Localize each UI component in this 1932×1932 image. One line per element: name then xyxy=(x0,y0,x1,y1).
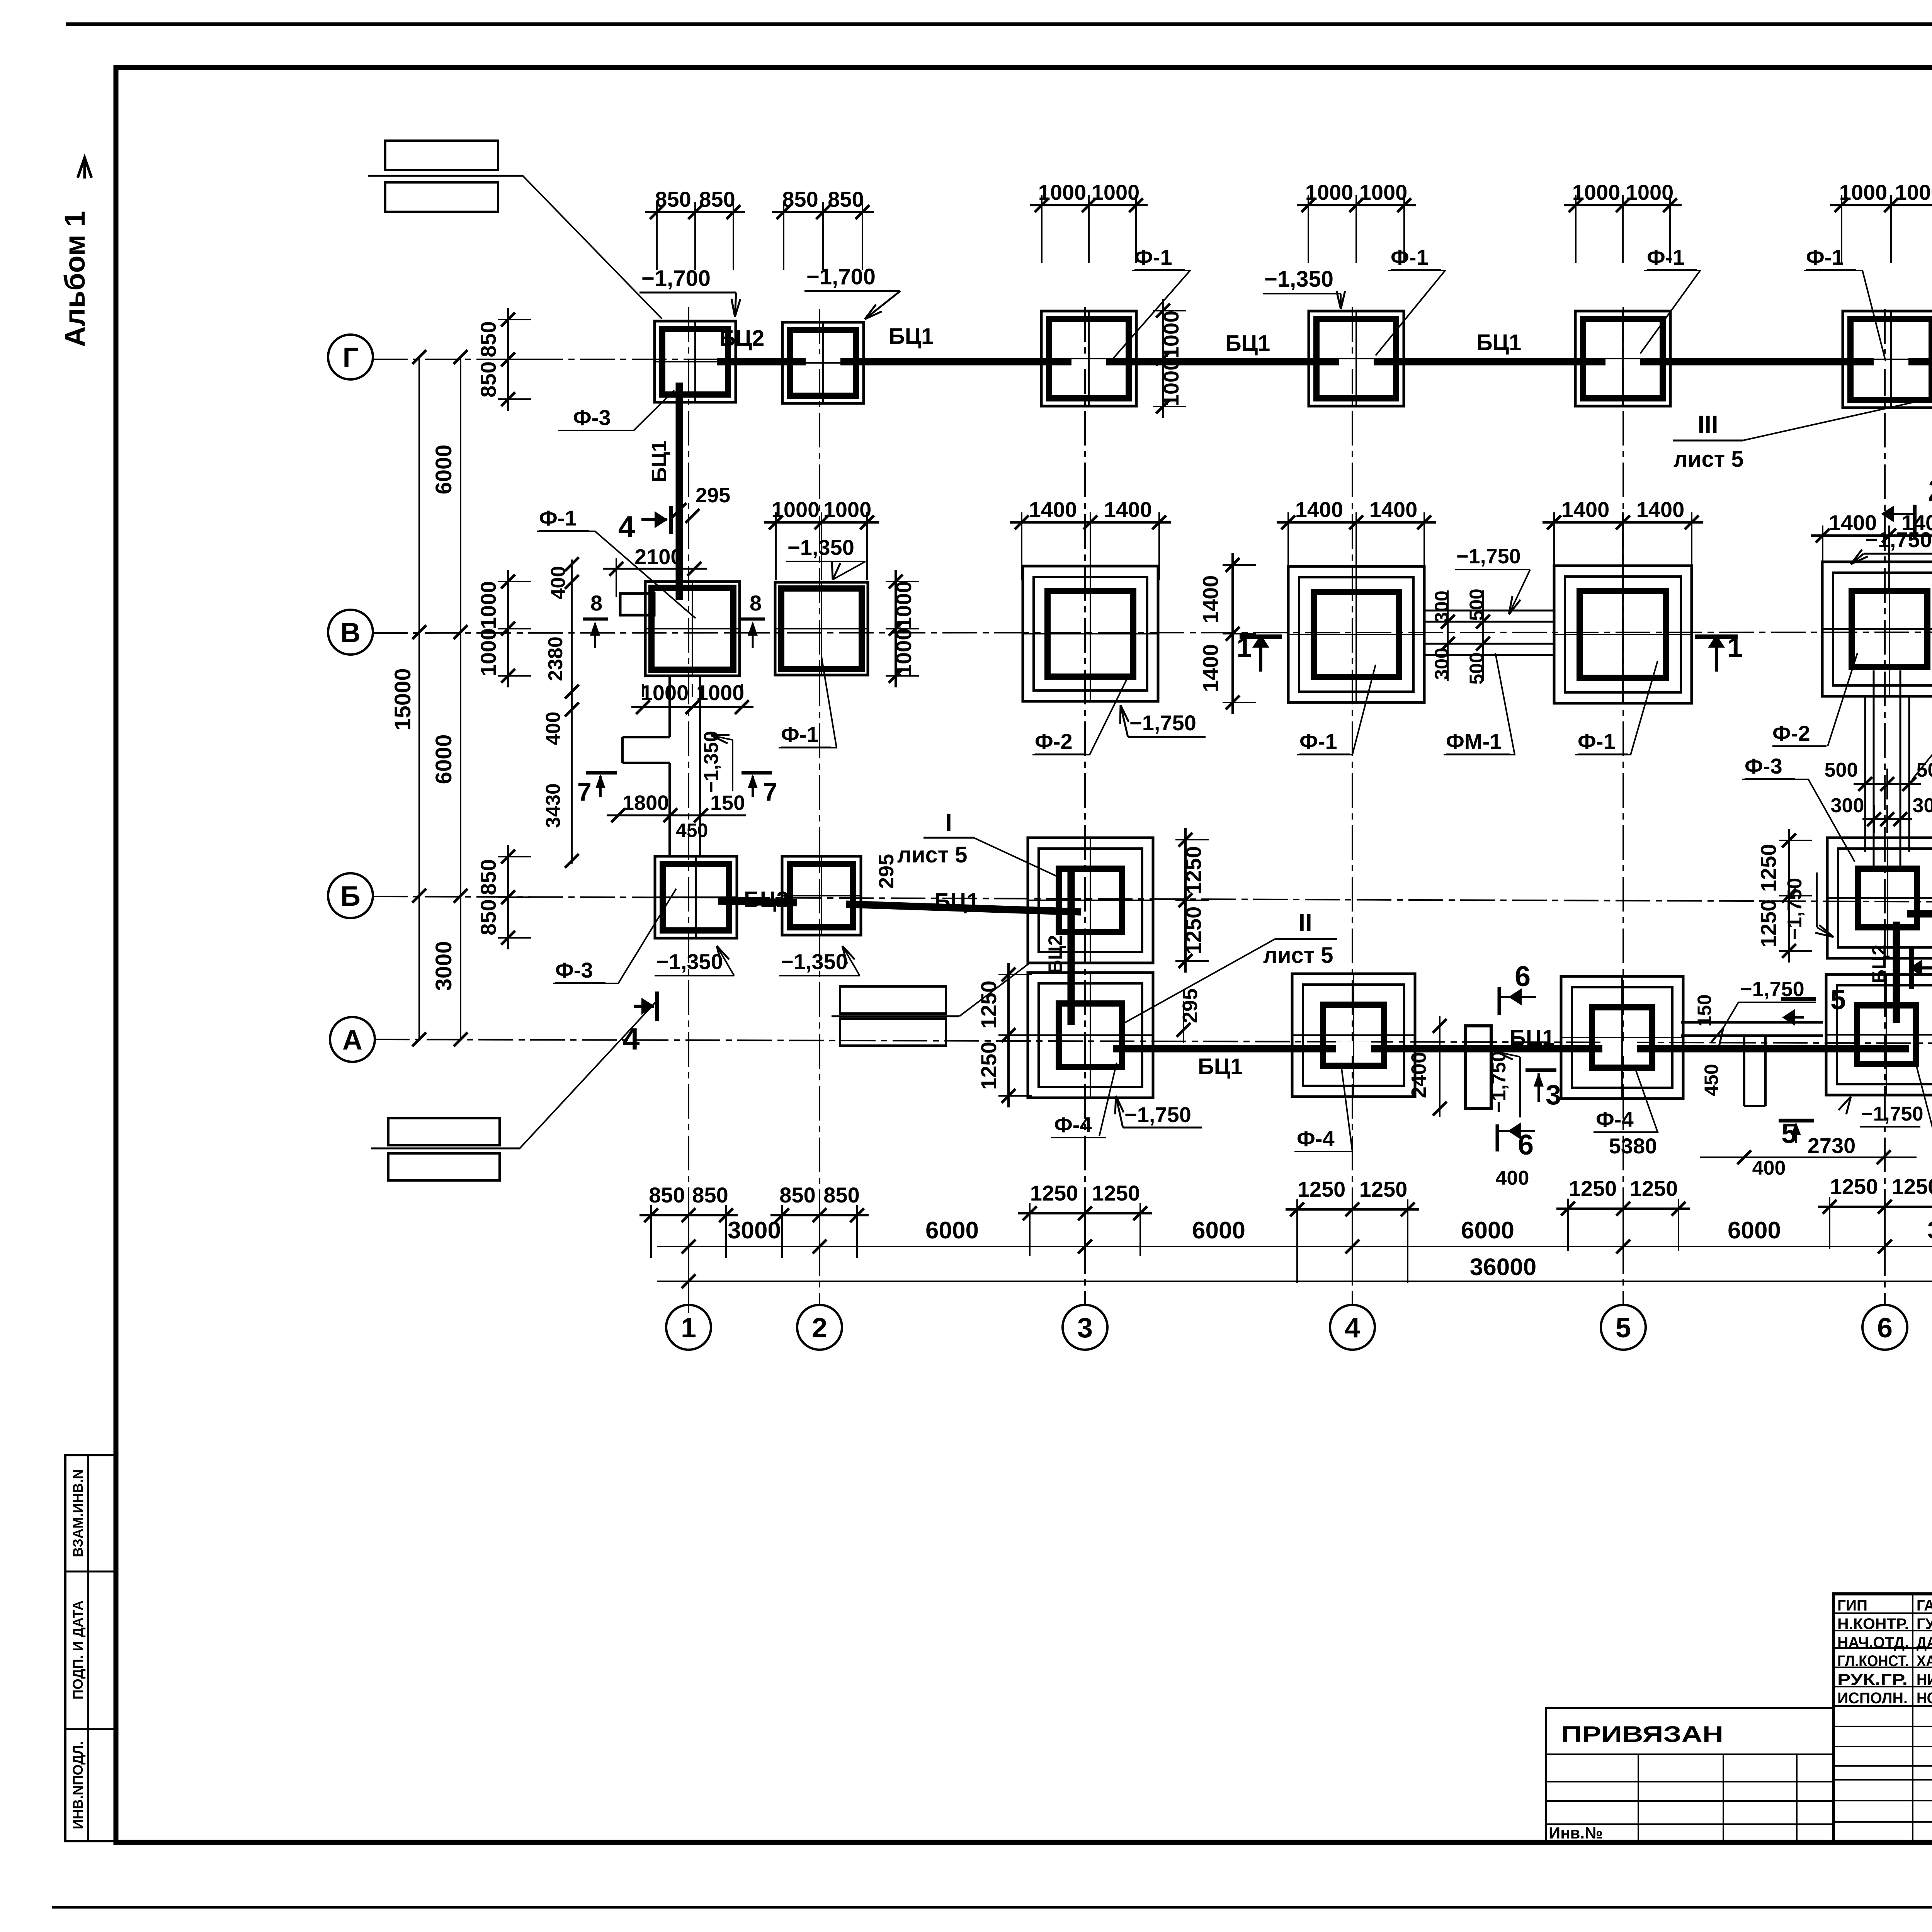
label БЦ1 Г4-5 xyxy=(1476,330,1521,355)
svg-text:лист 5: лист 5 xyxy=(897,842,968,867)
svg-text:300: 300 xyxy=(1431,648,1452,680)
ref I лист5 xyxy=(897,808,1059,877)
svg-text:1000: 1000 xyxy=(1895,180,1932,204)
svg-text:ГУЗЕНКО: ГУЗЕНКО xyxy=(1917,1616,1932,1633)
svg-text:400: 400 xyxy=(542,712,565,745)
svg-text:БЦ1: БЦ1 xyxy=(1510,1026,1554,1051)
svg-text:1000: 1000 xyxy=(1839,180,1888,204)
svg-text:1400: 1400 xyxy=(1029,497,1077,522)
svg-text:Ф-3: Ф-3 xyxy=(1745,754,1782,778)
label БЦ2 col3 vert xyxy=(1044,935,1066,974)
foundation Ф-2 В/3 xyxy=(1023,566,1158,701)
label ФМ-1 xyxy=(1444,653,1515,755)
svg-text:2400: 2400 xyxy=(1407,1052,1430,1098)
svg-text:6000: 6000 xyxy=(1728,1217,1781,1244)
dim 3430 В/1 xyxy=(542,783,565,828)
wall В/1-Б/1 xyxy=(622,676,700,855)
svg-text:3: 3 xyxy=(1077,1313,1093,1344)
sheet top rule xyxy=(66,22,1932,26)
svg-text:2730: 2730 xyxy=(1808,1133,1856,1158)
svg-text:295: 295 xyxy=(696,484,730,507)
svg-text:1000: 1000 xyxy=(1305,180,1354,204)
dim 300 ФМ-1 up xyxy=(1431,590,1452,622)
dim 2380 В/1 xyxy=(544,636,567,681)
axis line 1 xyxy=(688,307,689,1305)
dim 1000+1000 right of В/2 xyxy=(886,570,919,687)
svg-text:Ф-4: Ф-4 xyxy=(1297,1126,1335,1151)
svg-text:ИНВ.NПОДЛ.: ИНВ.NПОДЛ. xyxy=(70,1741,86,1829)
axis circle 6 xyxy=(1862,1305,1907,1350)
section 6 lower xyxy=(1497,1122,1535,1161)
label БЦ2 Б1-2 xyxy=(744,887,789,912)
section 5 upper xyxy=(1781,985,1846,1026)
dim 150 wall xyxy=(1694,994,1715,1026)
svg-text:1: 1 xyxy=(681,1313,696,1344)
elev -1,350 Г/4 xyxy=(1263,267,1345,309)
svg-text:Н.КОНТР.: Н.КОНТР. xyxy=(1837,1616,1909,1633)
svg-text:−1,750: −1,750 xyxy=(1456,545,1521,568)
label БЦ1 Г3-4 xyxy=(1225,331,1270,356)
elev -1,350 В/2 xyxy=(786,535,866,580)
svg-text:Ф-1: Ф-1 xyxy=(1578,729,1616,753)
dim 2100 В/1 xyxy=(603,544,707,597)
opening symbol top-left xyxy=(368,141,662,319)
dim 500 ФМ-1 up xyxy=(1466,588,1487,621)
dim 500 ФМ-1 dn xyxy=(1466,652,1487,684)
svg-text:Ф-1: Ф-1 xyxy=(781,722,819,747)
svg-text:1400: 1400 xyxy=(1561,497,1610,522)
dim 1250+1250 col3 xyxy=(1018,1181,1152,1256)
svg-text:1250: 1250 xyxy=(1830,1174,1878,1199)
svg-text:1000: 1000 xyxy=(1159,359,1183,407)
beam БЦ row А xyxy=(1113,1041,1909,1056)
foundation Ф-1 Г/4 xyxy=(1309,311,1404,406)
axis line В xyxy=(373,632,1932,633)
left dimension chain 15000/6000/6000/3000 xyxy=(390,350,468,1046)
label Ф-3 Б/6 xyxy=(1742,754,1855,862)
dim 1000+1000 above В/2 xyxy=(764,497,879,580)
svg-text:295: 295 xyxy=(1179,988,1202,1023)
svg-text:8: 8 xyxy=(590,591,602,615)
label Ф-1 Г/5 xyxy=(1640,245,1700,354)
svg-text:850: 850 xyxy=(476,361,500,397)
label Ф-1 Г/6 xyxy=(1804,245,1886,361)
axis line А xyxy=(375,1039,1932,1043)
svg-text:−1,750: −1,750 xyxy=(1784,878,1806,940)
label 295 Б2 xyxy=(875,854,898,889)
section 4 lower xyxy=(622,992,657,1056)
foundation Ф-3 Г/1 xyxy=(655,321,736,402)
elev -1,750 Б/3 xyxy=(1115,1096,1202,1128)
svg-text:Ф-1: Ф-1 xyxy=(1806,245,1844,269)
svg-text:1800: 1800 xyxy=(622,791,669,815)
foundation big Б/3 xyxy=(1028,838,1153,963)
dim 850+850 above Г/2 xyxy=(772,187,874,270)
elev -1,750 pier xyxy=(1488,1051,1520,1118)
svg-text:Ф-1: Ф-1 xyxy=(1391,245,1429,269)
svg-text:300: 300 xyxy=(1431,590,1452,622)
foundation Ф-4 А/3 xyxy=(1028,973,1153,1098)
svg-text:Инв.№: Инв.№ xyxy=(1549,1824,1603,1842)
svg-text:1250: 1250 xyxy=(1298,1177,1346,1201)
dim 1400+1400 above В/4 xyxy=(1277,497,1436,580)
dim 850+850 above Г/1 xyxy=(645,187,745,270)
svg-text:Ф-2: Ф-2 xyxy=(1035,729,1073,753)
section 8 left xyxy=(583,591,608,648)
label БЦ1 Г2-3 xyxy=(889,324,934,349)
привязан table xyxy=(1546,1708,1833,1842)
svg-text:ГИП: ГИП xyxy=(1837,1597,1867,1614)
axis circle 2 xyxy=(797,1305,842,1350)
svg-text:1000: 1000 xyxy=(641,680,689,705)
section 7 right xyxy=(742,773,777,806)
svg-text:7: 7 xyxy=(577,777,592,806)
dim 1000+1000 above Г/3 xyxy=(1030,180,1148,263)
opening symbol bottom-left xyxy=(371,1001,657,1180)
svg-text:300: 300 xyxy=(1831,794,1864,817)
svg-text:III: III xyxy=(1697,410,1718,438)
elev -1,750 ФМ-2 xyxy=(1851,527,1932,564)
svg-text:850: 850 xyxy=(828,187,864,211)
dim 1400+1400 above В/5 xyxy=(1543,497,1703,580)
dim 5380 2730 400 xyxy=(1609,1133,1917,1179)
svg-text:ГЛ.КОНСТ.: ГЛ.КОНСТ. xyxy=(1837,1653,1909,1670)
svg-text:500: 500 xyxy=(1466,652,1487,684)
foundation Ф-1 Г/5 xyxy=(1575,311,1670,406)
svg-text:НОРБЕКОВА: НОРБЕКОВА xyxy=(1917,1690,1932,1707)
svg-text:295: 295 xyxy=(875,854,898,889)
svg-text:5380: 5380 xyxy=(1609,1134,1657,1158)
label Ф-4 А/5 xyxy=(1594,1066,1658,1132)
svg-text:5: 5 xyxy=(1830,985,1846,1015)
elev -1,350 Б/1 xyxy=(655,946,734,976)
svg-text:850: 850 xyxy=(823,1183,859,1207)
svg-text:−1,350: −1,350 xyxy=(781,949,848,974)
svg-text:Ф-4: Ф-4 xyxy=(1596,1107,1634,1131)
svg-text:БЦ1: БЦ1 xyxy=(648,440,671,482)
label Ф-1 В/2b xyxy=(779,657,837,748)
svg-text:ПРИВЯЗАН: ПРИВЯЗАН xyxy=(1561,1722,1723,1747)
svg-text:850: 850 xyxy=(655,187,691,211)
svg-text:1400: 1400 xyxy=(1104,497,1152,522)
svg-text:БЦ1: БЦ1 xyxy=(934,889,979,914)
svg-text:II: II xyxy=(1298,909,1312,937)
label БЦ1 А4-5 xyxy=(1510,1026,1554,1051)
dim 850+850 left of Б/1 xyxy=(476,845,531,949)
svg-text:1250: 1250 xyxy=(1756,900,1781,948)
beam БЦ row Г xyxy=(717,354,1932,369)
svg-text:Ф-1: Ф-1 xyxy=(1299,729,1337,753)
svg-text:НИКОЛАЕВА: НИКОЛАЕВА xyxy=(1917,1671,1932,1688)
svg-text:БЦ1: БЦ1 xyxy=(889,324,934,349)
label Ф-4 А/4 xyxy=(1294,1063,1352,1151)
svg-text:6: 6 xyxy=(1515,960,1531,992)
dim 850+850 col1 xyxy=(639,1183,738,1258)
dim 1000+1000 above Г/5 xyxy=(1564,180,1682,263)
elev -1,750 Б/6 bottom xyxy=(1838,1097,1923,1127)
label Ф-1 Г/3 xyxy=(1109,245,1190,363)
svg-text:300: 300 xyxy=(1913,794,1932,817)
dim 1250+1250 col4 xyxy=(1286,1177,1419,1283)
dim 400 left xyxy=(1496,1167,1529,1189)
svg-text:1400: 1400 xyxy=(1369,497,1418,522)
beam БЦ row Б left xyxy=(718,901,1081,912)
section 1 right xyxy=(1695,632,1743,672)
svg-text:7: 7 xyxy=(763,777,777,806)
dim 1000+1000 right of Г/3 xyxy=(1153,299,1186,418)
svg-text:150: 150 xyxy=(1694,994,1715,1026)
dim 1400+1400 above В/6 xyxy=(1811,510,1932,594)
beam БЦ2 col3 Б-А xyxy=(1068,867,1075,1025)
svg-text:500: 500 xyxy=(1917,759,1932,781)
svg-text:А: А xyxy=(342,1025,362,1056)
dim 400 В/1 lower xyxy=(542,712,565,745)
svg-text:БЦ1: БЦ1 xyxy=(1198,1054,1243,1079)
axis circle 3 xyxy=(1063,1305,1107,1350)
svg-text:850: 850 xyxy=(649,1183,685,1207)
axis line 2 xyxy=(819,309,820,1305)
svg-text:БЦ2: БЦ2 xyxy=(1044,935,1066,974)
svg-text:6: 6 xyxy=(1877,1313,1893,1344)
svg-text:1250: 1250 xyxy=(1569,1176,1617,1201)
svg-text:1250: 1250 xyxy=(1030,1181,1078,1205)
svg-text:1000: 1000 xyxy=(476,628,500,677)
svg-text:8: 8 xyxy=(750,591,762,615)
section 5 lower xyxy=(1779,1118,1814,1149)
svg-text:Г: Г xyxy=(343,342,359,373)
section 1 left xyxy=(1236,632,1282,672)
svg-text:4: 4 xyxy=(1345,1313,1360,1344)
svg-text:6000: 6000 xyxy=(431,444,456,494)
label БЦ2 col6 vert xyxy=(1868,945,1890,983)
svg-text:500: 500 xyxy=(1466,588,1487,621)
dim 1000+1000 left of В/1 xyxy=(476,570,531,687)
svg-text:6000: 6000 xyxy=(431,734,456,784)
svg-text:1400: 1400 xyxy=(1636,497,1685,522)
dim 2400 pier xyxy=(1407,1016,1447,1117)
section 2 upper xyxy=(1881,473,1932,539)
svg-text:1250: 1250 xyxy=(1181,906,1206,955)
svg-text:Ф-3: Ф-3 xyxy=(573,405,611,430)
svg-text:I: I xyxy=(945,808,952,836)
svg-text:850: 850 xyxy=(782,187,818,211)
svg-text:1250: 1250 xyxy=(1756,844,1781,892)
svg-text:ДАНКОВ: ДАНКОВ xyxy=(1917,1634,1932,1651)
album label xyxy=(59,158,92,347)
elev -1,750 В/3 xyxy=(1120,705,1206,737)
foundation Ф-1 Г/6 xyxy=(1843,311,1932,408)
foundation В/1 with notch xyxy=(620,582,740,676)
foundation Ф-1 В/5 xyxy=(1554,566,1692,703)
axis circle Б xyxy=(328,873,373,918)
axis circle 4 xyxy=(1330,1305,1375,1350)
svg-text:1250: 1250 xyxy=(1092,1181,1140,1205)
svg-text:1000: 1000 xyxy=(1572,180,1621,204)
axis circle 5 xyxy=(1601,1305,1646,1350)
svg-text:Ф-2: Ф-2 xyxy=(1772,721,1810,745)
label БЦ2 Г1-2 xyxy=(719,326,764,351)
beam БЦ1 col1 Г-В xyxy=(676,383,683,600)
svg-text:3430: 3430 xyxy=(542,783,565,828)
label Ф-1 В/4b xyxy=(1297,665,1376,755)
svg-text:1000: 1000 xyxy=(1038,180,1087,204)
svg-text:Альбом 1: Альбом 1 xyxy=(59,211,91,347)
svg-text:1000: 1000 xyxy=(1626,180,1674,204)
dim 400 В/1 upper xyxy=(547,557,579,868)
svg-text:1250: 1250 xyxy=(1359,1177,1408,1201)
svg-text:−1,750: −1,750 xyxy=(1865,527,1932,552)
svg-text:Ф-1: Ф-1 xyxy=(1134,245,1172,269)
svg-text:400: 400 xyxy=(1496,1167,1529,1189)
svg-text:−1,750: −1,750 xyxy=(1129,711,1196,735)
svg-text:1000: 1000 xyxy=(891,581,916,629)
elev -1,750 Б/6 xyxy=(1784,872,1833,940)
section 4 upper xyxy=(618,506,671,544)
axis line 6 xyxy=(1884,309,1886,1305)
svg-text:Ф-4: Ф-4 xyxy=(1054,1112,1092,1137)
beam БЦ2 col6 Б-А xyxy=(1893,922,1900,1023)
pier col4-5 xyxy=(1465,1026,1491,1109)
svg-text:3000: 3000 xyxy=(431,941,456,991)
svg-text:6000: 6000 xyxy=(1192,1217,1245,1244)
svg-text:850: 850 xyxy=(476,859,500,895)
svg-text:850: 850 xyxy=(476,321,500,357)
axis circle 1 xyxy=(666,1305,711,1350)
svg-text:850: 850 xyxy=(692,1183,728,1207)
label Ф-1 В/1 xyxy=(537,506,696,618)
channel под wall xyxy=(1744,1036,1765,1106)
svg-text:400: 400 xyxy=(1752,1157,1786,1179)
label Ф-2 В/3 xyxy=(1032,676,1128,755)
svg-text:6000: 6000 xyxy=(925,1217,979,1244)
svg-text:Ф-1: Ф-1 xyxy=(1647,245,1685,269)
svg-text:1250: 1250 xyxy=(1630,1176,1678,1201)
svg-text:2: 2 xyxy=(1928,473,1932,507)
svg-text:15000: 15000 xyxy=(390,668,415,730)
svg-text:450: 450 xyxy=(1701,1064,1722,1096)
label 295 col3 xyxy=(1177,988,1202,1043)
dim 1250+1250 col6 xyxy=(1818,1174,1932,1249)
foundation Ф-2 В/6 xyxy=(1822,562,1932,696)
dim 300 ФМ-1 dn xyxy=(1431,648,1452,680)
foundation Ф-1 Г/3 xyxy=(1041,311,1136,406)
svg-text:Б: Б xyxy=(340,881,361,912)
dim 1000+1000 above Г/4 xyxy=(1297,180,1416,263)
axis line 5 xyxy=(1622,307,1624,1305)
label Ф-1 Г/4 xyxy=(1376,245,1445,355)
strip ФМ-1 В/4-В/5 xyxy=(1425,590,1554,681)
dim 300+300 ФМ-2 xyxy=(1831,794,1932,833)
dim 1800 В/1 xyxy=(607,791,746,822)
svg-text:2100: 2100 xyxy=(634,544,683,569)
svg-text:−1,750: −1,750 xyxy=(1861,1103,1923,1125)
elev -1,700 Г/1 xyxy=(639,266,740,317)
dim 1250+1250 left of А/3 xyxy=(976,963,1032,1107)
elev -1,350 В/1 xyxy=(700,731,733,793)
svg-text:ВЗАМ.ИНВ.N: ВЗАМ.ИНВ.N xyxy=(70,1469,86,1557)
bottom spacing chain xyxy=(657,1217,1932,1253)
left margin table xyxy=(65,1455,116,1841)
section 6 upper xyxy=(1499,960,1536,1015)
dim 1000+1000 below В/1 xyxy=(631,680,753,714)
svg-text:Ф-1: Ф-1 xyxy=(539,506,577,530)
label Ф-4 А/6 xyxy=(1916,1063,1932,1132)
svg-text:3000: 3000 xyxy=(728,1217,781,1244)
label БЦ1 А3-4 xyxy=(1198,1054,1243,1079)
svg-text:5: 5 xyxy=(1616,1313,1631,1344)
svg-text:1250: 1250 xyxy=(1892,1174,1932,1199)
axis circle Г xyxy=(328,335,373,379)
label Ф-1 В/5b xyxy=(1575,661,1658,755)
dim 450 wall xyxy=(1701,1064,1722,1096)
shaft ФМ-2 В/6-Б/6 xyxy=(1865,670,1909,870)
foundation Ф-4 А/4 xyxy=(1292,974,1415,1097)
ref III лист5 xyxy=(1673,350,1932,472)
label Ф-3 Г/1 xyxy=(558,390,674,430)
wall А/5-А/6 xyxy=(1681,1022,1823,1036)
svg-text:450: 450 xyxy=(676,820,708,841)
svg-text:−1,350: −1,350 xyxy=(787,535,854,560)
svg-text:1000: 1000 xyxy=(696,680,745,705)
svg-text:2: 2 xyxy=(812,1313,827,1344)
dim 450 В/1 xyxy=(676,820,708,841)
label БЦ1 col1 vert xyxy=(648,440,730,523)
dim 850+850 col2 xyxy=(770,1183,869,1258)
elev -1,750 ФМ-1 xyxy=(1455,545,1530,614)
svg-text:1250: 1250 xyxy=(976,1042,1001,1090)
foundation Ф-1 В/2 xyxy=(775,582,868,675)
svg-text:−1,350: −1,350 xyxy=(656,949,723,974)
svg-text:БЦ1: БЦ1 xyxy=(1476,330,1521,355)
svg-text:ПОДП. И ДАТА: ПОДП. И ДАТА xyxy=(70,1600,86,1699)
svg-text:1400: 1400 xyxy=(1295,497,1344,522)
svg-text:РУК.ГР.: РУК.ГР. xyxy=(1837,1671,1908,1688)
dim 1400+1400 right of В/3 xyxy=(1198,553,1256,714)
dim 500+500 ФМ-2 xyxy=(1825,759,1932,799)
svg-text:−1,700: −1,700 xyxy=(806,264,876,289)
axis line 4 xyxy=(1352,307,1353,1305)
dim 150 В/1 xyxy=(710,791,745,815)
stamp table xyxy=(1833,1594,1932,1842)
label Ф-2 В/6 xyxy=(1772,653,1857,746)
dim 1250+1250 col5 xyxy=(1556,1176,1690,1251)
svg-text:1000: 1000 xyxy=(476,581,500,629)
svg-text:36000: 36000 xyxy=(1470,1254,1536,1281)
svg-text:1000: 1000 xyxy=(891,628,916,677)
svg-text:−1,750: −1,750 xyxy=(1124,1102,1191,1127)
svg-text:БЦ1: БЦ1 xyxy=(1225,331,1270,356)
dim 1250+1250 left of Б/6 xyxy=(1756,829,1812,963)
svg-text:−1,750: −1,750 xyxy=(1488,1051,1510,1113)
svg-text:1000: 1000 xyxy=(1359,180,1408,204)
axis circle В xyxy=(328,610,373,655)
svg-text:1000: 1000 xyxy=(772,497,820,522)
svg-text:4: 4 xyxy=(622,1022,640,1056)
svg-text:−1,700: −1,700 xyxy=(641,266,711,291)
section 7 left xyxy=(577,773,617,806)
section 3 right xyxy=(1526,1070,1561,1111)
svg-text:Ф-3: Ф-3 xyxy=(555,958,593,982)
elev -1,350 Б/2 xyxy=(779,946,860,976)
svg-text:ХАРЛАМОВ: ХАРЛАМОВ xyxy=(1917,1653,1932,1670)
section 2 lower xyxy=(1909,947,1932,1011)
svg-text:850: 850 xyxy=(779,1183,815,1207)
outer bottom rule xyxy=(52,1906,1932,1909)
foundation Ф-3 Б/2 xyxy=(782,856,861,935)
svg-text:1400: 1400 xyxy=(1198,575,1223,624)
label Ф-4 А/3 xyxy=(1051,1063,1117,1138)
svg-text:1400: 1400 xyxy=(1198,644,1223,692)
